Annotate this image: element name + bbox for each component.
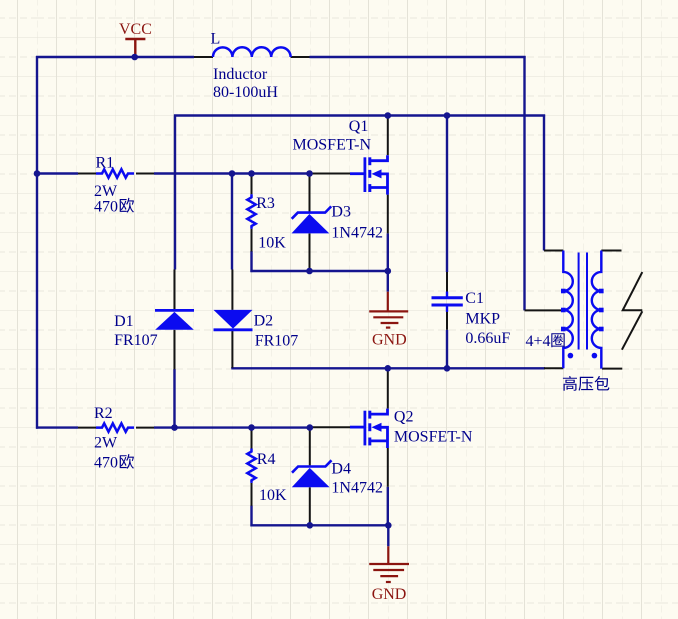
wire D2 top vertical <box>231 173 233 270</box>
pin Q2 source <box>387 448 389 487</box>
pin C1 bottom <box>446 312 448 330</box>
pin D1 bottom <box>174 330 176 370</box>
pin transformer secondary top <box>601 250 621 252</box>
pin R3 bottom <box>251 229 253 252</box>
pin C1 top <box>446 272 448 293</box>
svg-text:C1: C1 <box>465 290 484 307</box>
svg-text:D4: D4 <box>331 461 351 478</box>
pin inductor L left <box>194 56 213 58</box>
svg-text:0.66uF: 0.66uF <box>465 330 510 347</box>
svg-text:D2: D2 <box>254 313 274 330</box>
spark gap lightning stroke lower <box>622 311 642 349</box>
svg-text:FR107: FR107 <box>114 332 158 349</box>
svg-text:1N4742: 1N4742 <box>331 224 383 241</box>
wire R4 bottom vertical <box>250 506 252 527</box>
pin transformer center tap <box>525 309 564 311</box>
pin D1 top <box>174 270 176 311</box>
junction node (387.8,271) <box>385 268 392 275</box>
pin R2 right <box>136 427 154 429</box>
wire bottom rail to GND <box>250 524 388 526</box>
pin transformer secondary bottom <box>602 368 622 370</box>
pin transformer primary bottom <box>544 367 563 369</box>
wire top rail right of inductor <box>310 56 526 58</box>
junction node (447,115.5) <box>444 112 451 119</box>
svg-text:470: 470 <box>94 455 118 472</box>
transformer primary cusp squares <box>561 289 566 332</box>
junction node (251.5,173.5) <box>248 170 255 177</box>
junction node (37,173.5) <box>34 170 41 177</box>
wire D2 corner vertical <box>231 367 233 368</box>
diode D2 <box>214 310 253 330</box>
pin D4 top <box>309 428 311 466</box>
svg-text:D1: D1 <box>114 313 134 330</box>
pin transformer primary top <box>544 250 563 252</box>
power port VCC <box>125 39 145 54</box>
label CJK ohm for R1 value <box>120 198 134 213</box>
svg-text:D3: D3 <box>331 204 351 221</box>
svg-text:Inductor: Inductor <box>213 66 268 83</box>
wire C1 top vertical <box>446 115 448 273</box>
zener diode D3 <box>292 206 332 233</box>
svg-text:R1: R1 <box>96 155 115 172</box>
resistor R2 <box>96 423 134 431</box>
svg-text:L: L <box>211 31 221 48</box>
svg-text:GND: GND <box>372 586 407 603</box>
svg-text:2W: 2W <box>94 435 118 452</box>
svg-text:Q2: Q2 <box>394 409 414 426</box>
wire R2 rail left <box>36 426 78 428</box>
resistor R1 <box>96 169 134 177</box>
svg-text:FR107: FR107 <box>255 333 299 350</box>
svg-text:R4: R4 <box>257 451 276 468</box>
pin R3 top <box>251 174 253 195</box>
resistor R4 <box>247 449 255 483</box>
pin Q2 drain <box>387 368 389 408</box>
svg-text:10K: 10K <box>258 235 286 252</box>
svg-text:R3: R3 <box>256 195 275 212</box>
svg-text:Q1: Q1 <box>349 118 369 135</box>
wire Q1 source lower <box>387 233 389 271</box>
svg-text:MOSFET-N: MOSFET-N <box>394 429 473 446</box>
resistor R3 <box>247 194 255 228</box>
pin R1 left <box>78 173 96 175</box>
pin Q1 source <box>387 195 389 234</box>
pin D2 top <box>231 270 233 310</box>
wire R3 bottom vertical <box>250 251 252 272</box>
wire R1 rail left <box>37 172 78 174</box>
transformer polarity dot right <box>592 353 598 359</box>
label CJK gao ya bao (HV pack) <box>563 376 609 391</box>
svg-text:R2: R2 <box>94 405 113 422</box>
svg-text:VCC: VCC <box>119 21 152 38</box>
junction node (251.5,427.6) <box>248 424 255 431</box>
junction node (387.8,115.5) <box>385 112 392 119</box>
transformer core lines <box>579 253 587 350</box>
pin D3 top <box>309 174 311 212</box>
zener diode D4 <box>292 460 332 487</box>
spark gap lightning stroke upper <box>623 272 643 310</box>
junction node (309.5,173.5) <box>306 170 313 177</box>
junction node (232,173.5) <box>229 170 236 177</box>
wire D1 bottom vertical <box>173 369 175 429</box>
svg-text:10K: 10K <box>259 487 287 504</box>
wire VCC top rail left <box>36 56 194 58</box>
svg-text:80-100uH: 80-100uH <box>213 84 278 101</box>
svg-text:4+4: 4+4 <box>526 333 551 350</box>
svg-text:GND: GND <box>372 331 407 348</box>
wire upper loop left vertical to D1 <box>174 115 176 270</box>
junction node (309.5,271) <box>306 268 313 275</box>
transformer polarity dot left <box>568 353 574 359</box>
wire left vertical VCC rail <box>36 56 38 429</box>
pin R4 top <box>251 428 253 449</box>
wire right vertical to transformer center tap <box>523 56 525 310</box>
transformer secondary cusp squares <box>599 289 604 332</box>
mosfet Q2 <box>350 409 388 448</box>
pin D4 bottom <box>309 487 311 525</box>
label CJK quan (turns) for transformer <box>551 333 564 347</box>
pin inductor L right <box>291 56 310 58</box>
junction node (134.7,57) <box>131 54 138 61</box>
capacitor C1 <box>432 292 463 312</box>
inductor L <box>213 47 291 57</box>
wire R1 rail right <box>154 172 310 174</box>
wire R2 rail right <box>154 426 310 428</box>
wire C1 bottom vertical <box>446 330 448 370</box>
label CJK ohm for R2 value <box>120 454 134 469</box>
pin Q2 gate <box>310 426 350 428</box>
transformer secondary winding <box>592 251 602 369</box>
junction node (174.5,427.6) <box>171 424 178 431</box>
pin R4 bottom <box>251 483 253 506</box>
pin R1 right <box>136 173 154 175</box>
pin Q1 gate <box>310 173 351 175</box>
mosfet Q1 <box>350 155 388 194</box>
transformer primary winding <box>563 251 573 369</box>
wire vertical to transformer top pin <box>543 115 545 251</box>
pin Q1 drain <box>387 116 389 156</box>
wire upper loop horizontal <box>174 114 545 116</box>
svg-text:470: 470 <box>94 198 118 215</box>
junction node (447,368.3) <box>444 365 451 372</box>
wire Q1 source to GND <box>387 271 389 292</box>
junction node (387.8,368.3) <box>385 365 392 372</box>
wire Q2 source lower <box>387 487 389 526</box>
wire mid rail to transformer bottom <box>231 367 545 369</box>
wire gate rail Q1 <box>250 270 387 272</box>
svg-text:MOSFET-N: MOSFET-N <box>293 137 372 154</box>
pin D2 bottom <box>231 330 233 368</box>
ground GND upper <box>369 292 408 328</box>
junction node (388.3,525.3) <box>385 522 392 529</box>
junction node (309.8,525.3) <box>307 522 314 529</box>
wire Q2 source to GND vertical <box>387 524 389 546</box>
svg-text:MKP: MKP <box>465 311 500 328</box>
diode D1 <box>155 310 194 329</box>
ground GND lower <box>369 546 409 582</box>
svg-text:1N4742: 1N4742 <box>331 479 383 496</box>
pin R2 left <box>78 427 96 429</box>
junction node (309.8,427.6) <box>307 424 314 431</box>
pin D3 bottom <box>309 234 311 272</box>
